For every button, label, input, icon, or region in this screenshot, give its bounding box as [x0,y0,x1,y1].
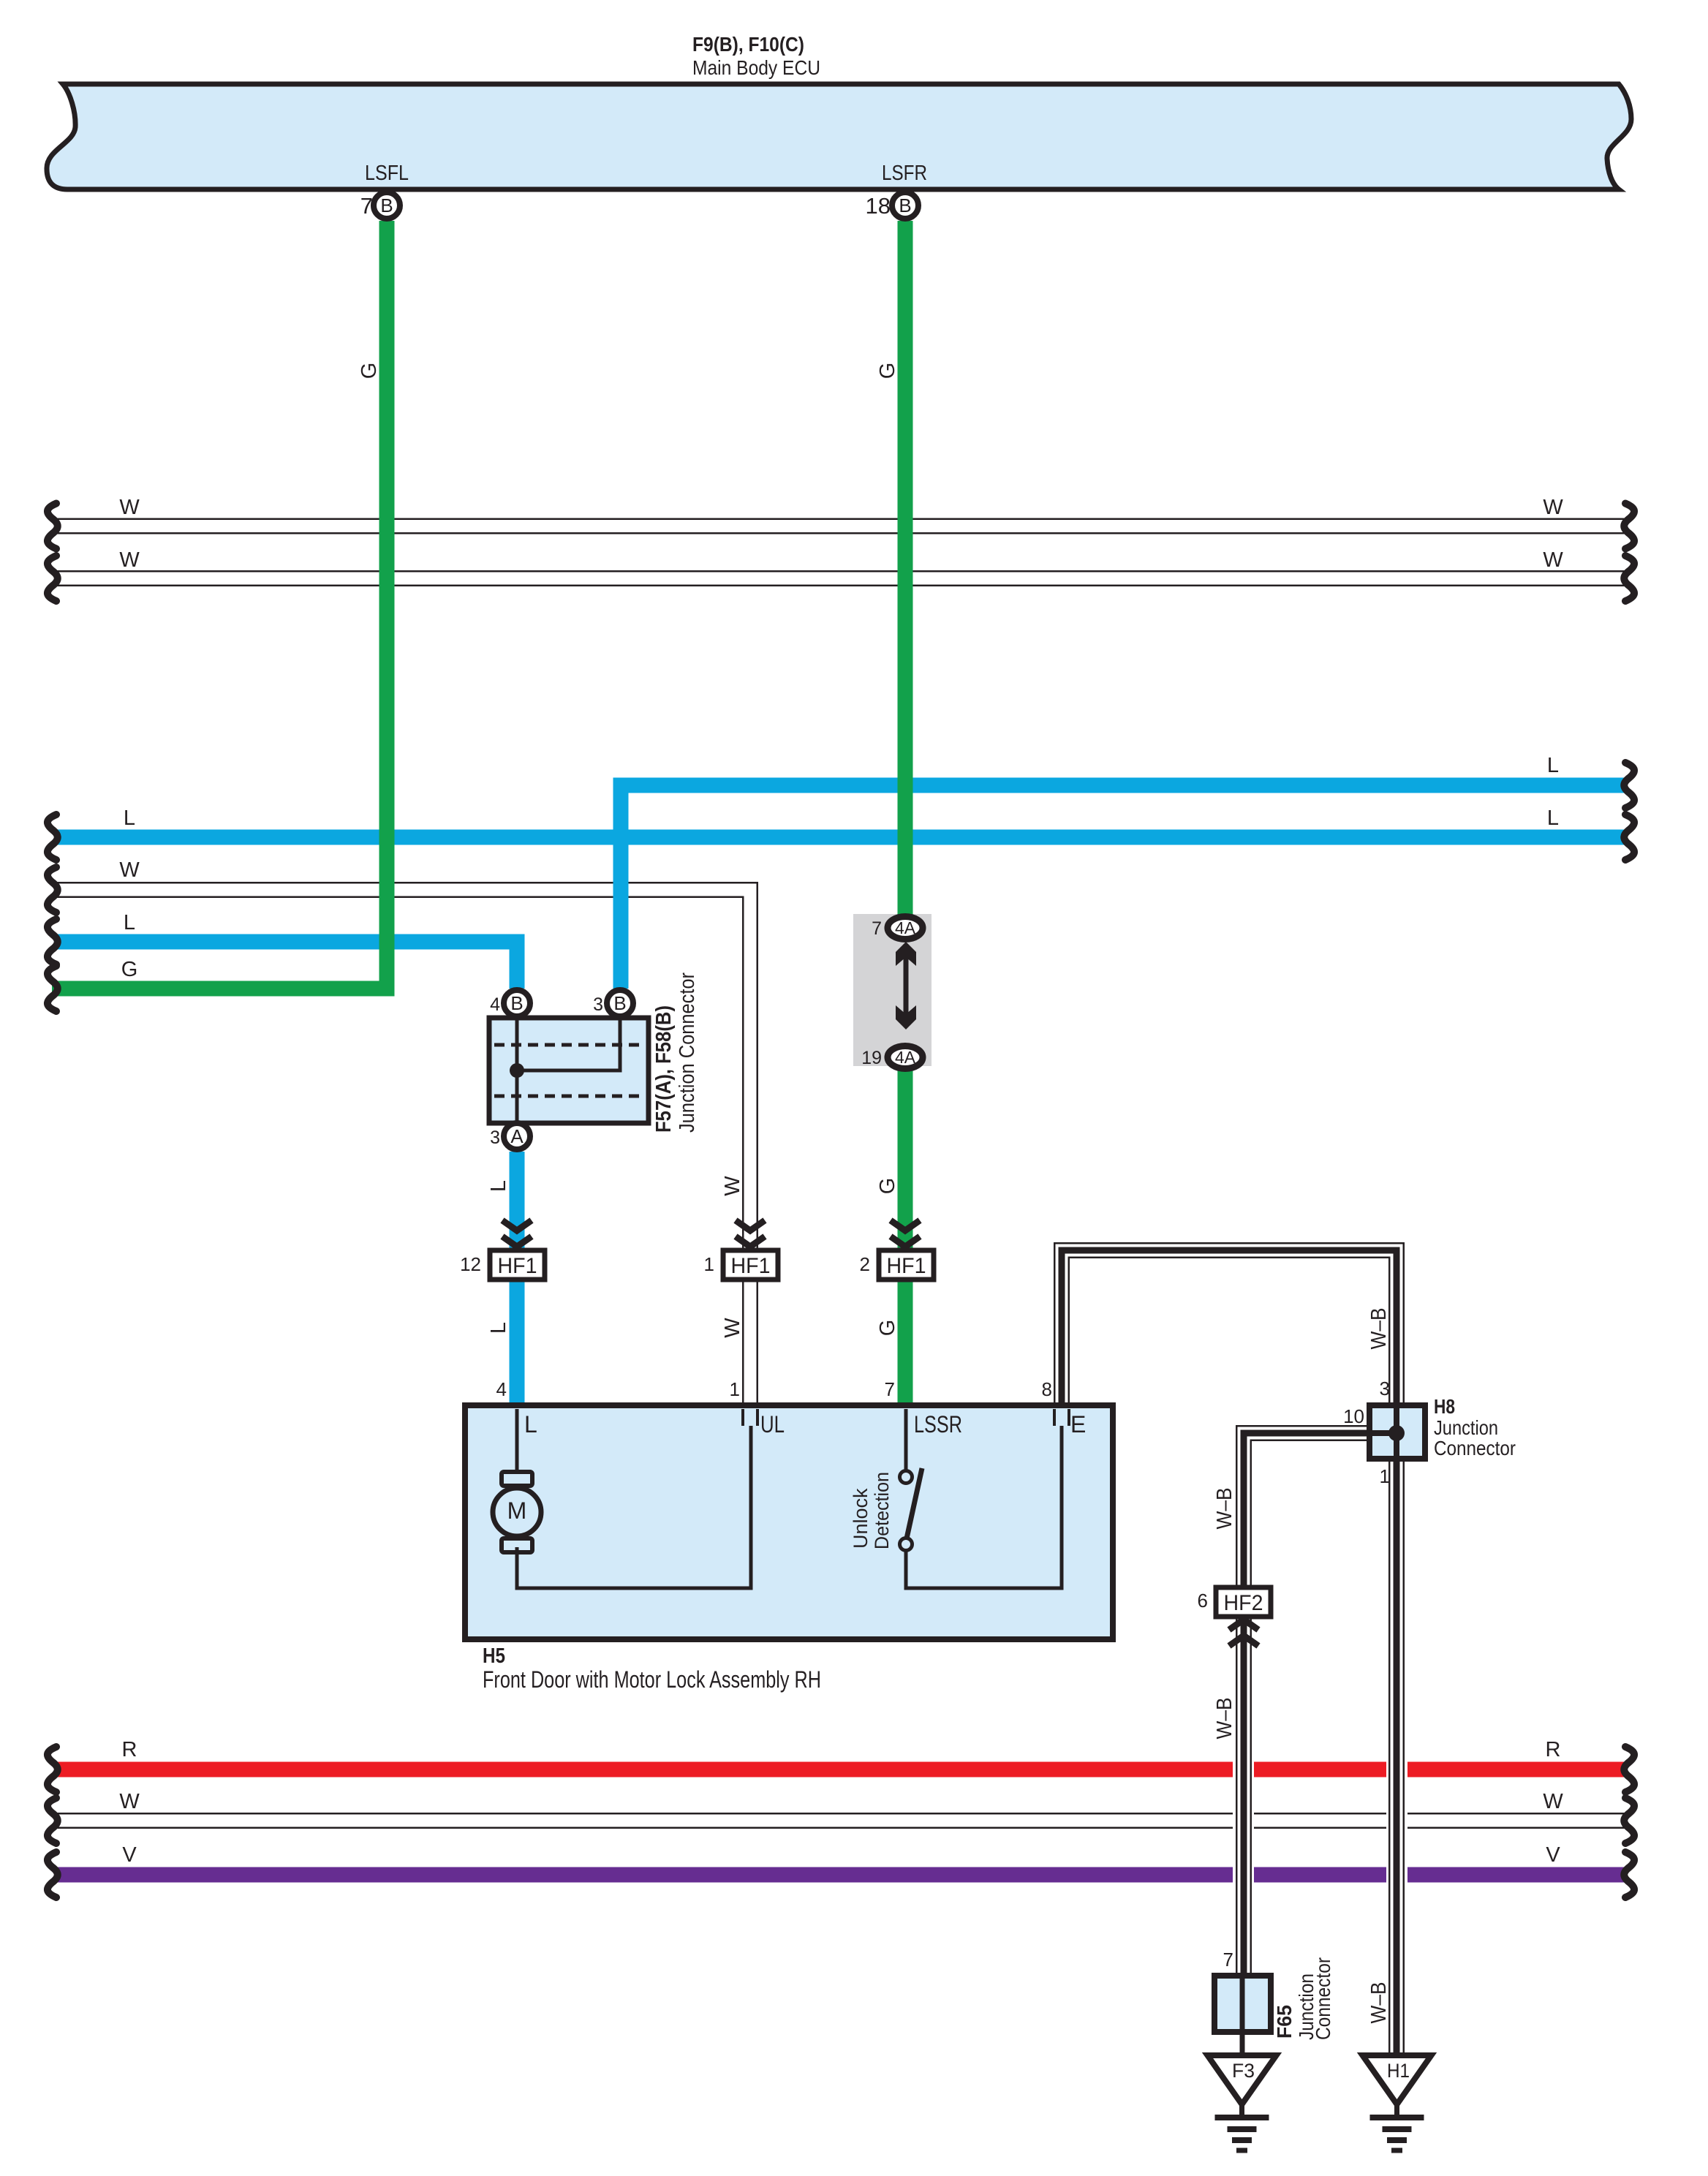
svg-text:F3: F3 [1232,2060,1255,2082]
svg-text:F65: F65 [1273,2005,1296,2039]
svg-text:W–B: W–B [1367,1308,1391,1350]
svg-text:Connector: Connector [1312,1957,1334,2040]
connector HF1 (pin 1) [723,1250,778,1280]
connector arrow (chevrons) HF1 pin 12 [502,1220,532,1247]
wire R horizontal bottom [56,1762,1625,1778]
wire G from HF1 pin 2 to H5 pin 7 [898,1278,913,1407]
svg-text:W: W [119,858,140,882]
svg-text:1: 1 [730,1378,740,1400]
svg-text:V: V [122,1843,137,1867]
connector HF1 (pin 12) [490,1250,545,1280]
svg-text:W: W [119,496,140,519]
junction connector F57(A), F58(B) body [489,1018,649,1123]
H5 terminal names [524,1411,1086,1438]
svg-text:Junction Connector: Junction Connector [676,972,699,1133]
svg-text:L: L [487,1180,510,1192]
svg-text:1: 1 [1380,1465,1390,1487]
wire-break squiggle L left [48,815,58,860]
ECU block title [692,33,820,79]
connector pin B (LSFL pin 7) [374,192,400,219]
wire W horizontal 2 [56,570,1625,586]
svg-text:W: W [119,548,140,572]
svg-text:1: 1 [704,1253,714,1275]
svg-text:G: G [876,1178,899,1195]
svg-text:W: W [721,1318,744,1338]
svg-text:HF1: HF1 [731,1254,771,1278]
wire L from right to F57 pin 3(B) [621,785,1625,989]
wire-break squiggle V right [1624,1852,1634,1897]
junction connector F57 internal wiring [517,1018,620,1123]
junction node (dot) inside H8 [1388,1425,1405,1441]
svg-text:3: 3 [1380,1378,1390,1399]
svg-text:Detection: Detection [871,1472,893,1549]
wire-break squiggle W4 left [48,1798,58,1843]
connector pin A (F57 pin 3) [504,1123,530,1149]
svg-text:W: W [1543,496,1563,519]
connector pin 4A (pin 19) [888,1046,923,1069]
wire-break squiggle L-up right [1624,763,1634,808]
connector arrow (chevrons) HF1 pin 2 [891,1220,920,1247]
H5 pin numbers [496,1378,1052,1400]
wire L from HF1 pin 12 to H5 pin 4 [510,1278,525,1407]
svg-text:12: 12 [460,1253,481,1275]
wire-break squiggle R right [1624,1747,1634,1792]
svg-text:L: L [124,806,135,830]
wire W-B from HF2 to F65 pin 7 [1236,1615,1252,1977]
svg-text:H1: H1 [1387,2060,1410,2082]
option block (gray) around 4A connectors [853,914,932,1066]
svg-text:LSFL: LSFL [365,162,409,185]
connector pin B (LSFR pin 18) [892,192,918,219]
svg-text:B: B [899,194,911,216]
svg-text:4A: 4A [895,1048,916,1067]
connector pin B (F57 pin 3) [607,990,633,1016]
wire-break squiggle V left [48,1852,58,1897]
svg-text:G: G [876,1320,899,1337]
wire crossing halo left [1233,1751,1254,1890]
wire from F65 to ground F3 [1240,2032,1245,2055]
label F65 Junction Connector [1273,1957,1334,2040]
svg-text:L: L [1547,754,1559,777]
svg-text:G: G [358,363,381,379]
H5 terminal stubs below pins 1 and 8 [743,1409,1069,1426]
svg-text:8: 8 [1042,1378,1052,1400]
svg-text:M: M [507,1497,527,1524]
svg-text:F57(A), F58(B): F57(A), F58(B) [652,1005,676,1133]
svg-text:HF2: HF2 [1224,1591,1263,1615]
svg-text:19: 19 [861,1048,882,1068]
svg-text:H5: H5 [483,1644,505,1668]
connector arrow (chevrons) HF2 pin 6 [1229,1620,1258,1646]
F65 internal wire [1240,1976,1245,2032]
svg-text:4: 4 [496,1378,507,1400]
wire-break squiggle W3 left [48,867,58,913]
svg-text:Main Body ECU: Main Body ECU [692,56,820,79]
svg-text:Front Door with Motor Lock Ass: Front Door with Motor Lock Assembly RH [483,1666,821,1693]
double-ended arrow between 4A connectors [896,942,916,1030]
wire color labels right side [1543,496,1563,1867]
label F57(A), F58(B) Junction Connector [652,972,699,1133]
switch label Unlock Detection [850,1472,893,1549]
connector HF2 (pin 6) [1216,1587,1271,1617]
svg-text:A: A [510,1125,524,1147]
svg-text:L: L [124,911,135,934]
svg-text:B: B [510,992,523,1014]
wire-break squiggle W2 left [48,556,58,601]
wire L to F57 pin 4(B) [56,942,517,989]
ground F3 [1208,2055,1277,2150]
svg-text:L: L [1547,806,1559,830]
junction connector H8 body [1369,1405,1425,1459]
junction connector F57 internal bus (dashed) [494,1045,644,1096]
wire W to HF1 pin 1 [56,890,750,1252]
label H8 Junction Connector [1434,1395,1516,1459]
svg-text:W: W [119,1790,140,1813]
ground H1 [1363,2055,1432,2150]
wire W from HF1 pin 1 to H5 pin 1 [742,1278,758,1407]
connector pin 4A (pin 7) [888,917,923,940]
connector HF1 (pin 2) [879,1250,934,1280]
wire W horizontal bottom [56,1813,1625,1829]
wire W horizontal 1 [56,518,1625,534]
component H5 Front Door with Motor Lock Assembly RH body [465,1405,1113,1639]
svg-text:UL: UL [760,1411,785,1438]
wire-break squiggle W1 right [1624,504,1634,549]
svg-text:LSSR: LSSR [914,1411,962,1438]
svg-text:B: B [380,194,393,216]
svg-text:W–B: W–B [1367,1982,1391,2024]
H8 internal wiring [1372,1408,1397,1456]
svg-text:Connector: Connector [1434,1437,1516,1459]
wire W-B from H8 pin 1 to ground H1 [1388,1457,1405,2055]
svg-text:3: 3 [593,994,603,1015]
svg-text:Junction: Junction [1434,1416,1498,1439]
svg-text:W–B: W–B [1213,1488,1236,1530]
svg-text:LSFR: LSFR [882,162,927,185]
svg-text:G: G [876,363,899,379]
svg-text:W–B: W–B [1213,1698,1236,1739]
svg-text:G: G [121,958,138,981]
svg-text:V: V [1546,1843,1560,1867]
svg-text:10: 10 [1343,1405,1364,1427]
svg-text:B: B [613,992,626,1014]
wire color labels left side [119,496,140,1867]
svg-text:4A: 4A [895,918,916,937]
connector pin B (F57 pin 4) [504,990,530,1016]
junction node (dot) inside F57 [510,1063,524,1078]
svg-text:6: 6 [1198,1590,1208,1612]
switch Unlock Detection [900,1468,923,1551]
svg-text:H8: H8 [1434,1395,1455,1418]
svg-text:W: W [1543,548,1563,572]
ECU block F9(B), F10(C) Main Body ECU [47,84,1631,189]
svg-text:L: L [487,1322,510,1334]
motor M inside H5 [493,1472,541,1552]
svg-text:F9(B), F10(C): F9(B), F10(C) [692,33,804,56]
wire-break squiggle L2 left [48,919,58,964]
svg-text:E: E [1070,1411,1086,1438]
svg-text:Unlock: Unlock [850,1488,872,1549]
svg-text:2: 2 [860,1253,870,1275]
wire-break squiggle W2 right [1624,556,1634,601]
svg-text:HF1: HF1 [498,1254,537,1278]
wire-break squiggle G left [48,966,58,1011]
svg-text:W: W [721,1176,744,1196]
H5 unlock detection switch circuit [906,1409,1062,1588]
wire-break squiggle W4 right [1624,1798,1634,1843]
wire V horizontal bottom [56,1867,1625,1883]
wire-break squiggle W1 left [48,504,58,549]
svg-text:4: 4 [490,994,500,1015]
svg-text:7: 7 [1223,1949,1233,1971]
junction connector F65 body [1214,1976,1271,2032]
wire G from ECU LSFR pin 18 to 4A pin 7 [898,221,913,915]
wire W-B from H8 pin 10 to HF2 pin 6 [1244,1433,1370,1589]
wire-break squiggle L right [1624,815,1634,860]
svg-text:HF1: HF1 [887,1254,926,1278]
svg-text:L: L [524,1411,537,1438]
wire L from F57 pin 3(A) to HF1 pin 12 [510,1152,525,1252]
H5 motor circuit wire [517,1409,751,1588]
svg-text:W: W [1543,1790,1563,1813]
svg-text:3: 3 [490,1127,500,1148]
svg-text:R: R [122,1738,137,1761]
H5 title [483,1644,821,1693]
wire-break squiggle R left [48,1747,58,1792]
svg-text:7: 7 [872,918,882,939]
wire L horizontal main [56,830,1625,845]
svg-text:7: 7 [885,1378,895,1400]
wire W-B from H5 pin 8 to H8 pin 3 [1062,1250,1397,1407]
connector arrow (chevrons) HF1 pin 1 [736,1220,765,1247]
wire crossing halo right [1386,1751,1407,1890]
svg-text:18: 18 [866,193,891,219]
wire G from ECU LSFL pin 7 to left break [52,221,387,989]
wire G from 4A pin 19 to HF1 pin 2 [898,1068,913,1252]
svg-text:R: R [1546,1738,1561,1761]
